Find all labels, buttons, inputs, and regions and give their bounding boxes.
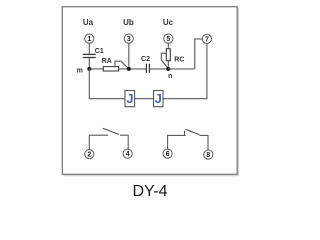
wire: bus m to RA [89,68,103,70]
wire: node n to right corner [168,68,195,70]
terminal 2 [85,150,94,159]
wire: bottom bus to relay J1 [89,98,125,100]
RA wiper tap [115,61,129,69]
svg-text:7: 7 [205,37,209,44]
wire: terminal 3 down to node [128,43,130,69]
node n [166,67,172,80]
wire: relay J2 to right drop [163,98,207,100]
svg-text:J: J [126,91,133,106]
wire: terminal 5 to RC [167,43,169,49]
relay coil J2 [154,91,164,107]
svg-text:RC: RC [174,57,184,64]
wire: terminal 1 to C1 [88,43,90,54]
svg-text:8: 8 [206,152,210,159]
terminal 7 [202,34,211,43]
capacitor C2 [141,56,150,73]
terminal 5 [164,34,173,43]
wire: node m down left drop [88,69,90,99]
svg-text:1: 1 [87,36,91,43]
wire: between relay coils [135,98,154,100]
terminal 3 [124,34,133,43]
svg-text:6: 6 [166,151,170,158]
svg-text:J: J [155,91,162,106]
border frame [62,7,237,175]
svg-text:m: m [77,67,83,74]
svg-text:Ub: Ub [123,18,134,27]
resistor RA [102,58,119,71]
capacitor C1 [83,48,104,58]
svg-text:DY-4: DY-4 [133,183,168,200]
wire: C1 to node m [88,58,90,69]
svg-text:C1: C1 [95,48,104,55]
relay coil J1 [125,91,135,107]
wire: C2 to node n [149,68,168,70]
svg-text:Uc: Uc [163,18,174,27]
wire: terminal 7 down right drop [206,44,208,100]
svg-text:4: 4 [126,151,130,158]
svg-text:3: 3 [127,36,131,43]
terminal 8 [204,150,213,159]
svg-text:Ua: Ua [83,18,94,27]
wire: corner up to terminal 7 [195,39,203,69]
wire: RC to node n [167,61,169,69]
svg-text:5: 5 [166,36,170,43]
node m [77,67,92,74]
wire: RA to C2 [119,68,147,70]
svg-text:n: n [168,73,172,80]
terminal 4 [123,149,132,158]
node junction at RA tap [127,67,131,71]
contact switch 2-4 (NO) [89,128,128,149]
contact switch 6-8 (NC) [168,129,208,150]
svg-text:RA: RA [102,58,112,65]
terminal 1 [85,34,94,43]
svg-text:C2: C2 [141,56,150,63]
resistor RC [166,49,184,64]
RC wiper tap [161,53,168,68]
terminal 6 [163,149,172,158]
svg-text:2: 2 [87,152,91,159]
